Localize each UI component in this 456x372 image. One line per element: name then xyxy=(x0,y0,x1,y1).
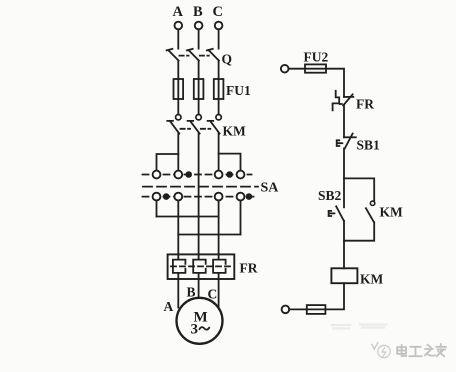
svg-text:KM: KM xyxy=(380,205,404,220)
svg-text:FU1: FU1 xyxy=(226,83,251,98)
svg-text:KM: KM xyxy=(360,272,384,287)
svg-text:B: B xyxy=(187,285,196,300)
svg-text:Q: Q xyxy=(222,52,233,67)
svg-text:C: C xyxy=(213,4,223,20)
svg-text:KM: KM xyxy=(223,124,247,139)
svg-text:B: B xyxy=(193,4,203,20)
svg-text:FR: FR xyxy=(356,97,374,112)
svg-text:SB1: SB1 xyxy=(357,138,381,153)
svg-text:FR: FR xyxy=(240,261,258,276)
svg-text:SB2: SB2 xyxy=(318,188,342,203)
svg-text:C: C xyxy=(208,287,218,302)
svg-text:FU2: FU2 xyxy=(304,50,329,65)
svg-text:A: A xyxy=(173,4,184,20)
svg-text:SA: SA xyxy=(261,181,280,196)
svg-text:3: 3 xyxy=(191,322,199,338)
svg-text:A: A xyxy=(164,299,174,314)
